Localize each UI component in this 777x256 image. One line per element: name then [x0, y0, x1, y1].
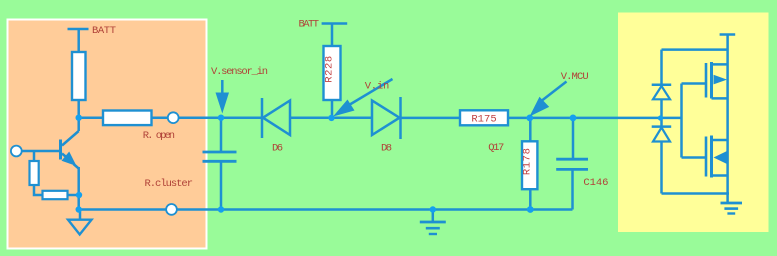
svg-text:D6: D6 [272, 143, 283, 155]
svg-text:V.sensor_in: V.sensor_in [211, 66, 268, 78]
svg-text:V.in: V.in [365, 81, 390, 93]
svg-text:R228: R228 [323, 56, 335, 83]
svg-text:R.cluster: R.cluster [145, 178, 194, 190]
svg-text:R175: R175 [471, 114, 496, 126]
svg-text:BATT: BATT [92, 25, 116, 37]
svg-text:C146: C146 [583, 177, 608, 189]
svg-text:V.MCU: V.MCU [561, 71, 589, 83]
svg-text:D8: D8 [381, 143, 392, 155]
svg-text:Q17: Q17 [488, 142, 504, 154]
svg-text:R178: R178 [522, 148, 534, 175]
svg-text:BATT: BATT [299, 18, 320, 30]
svg-text:R. open: R. open [143, 130, 175, 142]
